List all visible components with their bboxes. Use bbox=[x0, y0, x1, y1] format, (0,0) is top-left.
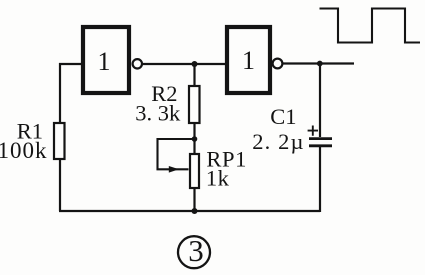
resistor R2 bbox=[189, 86, 200, 123]
node: junction dot U1 output / R2 bbox=[192, 61, 198, 67]
wire: bottom horizontal rail bbox=[59, 210, 320, 212]
svg-text:C1: C1 bbox=[270, 104, 296, 129]
svg-text:1: 1 bbox=[242, 46, 255, 75]
svg-text:3: 3 bbox=[188, 233, 204, 268]
svg-text:1k: 1k bbox=[206, 165, 230, 190]
svg-text:2. 2µ: 2. 2µ bbox=[252, 129, 304, 154]
capacitor C1 bottom plate bbox=[309, 144, 332, 147]
svg-text:3. 3k: 3. 3k bbox=[135, 101, 181, 126]
polarity plus mark of C1 bbox=[308, 126, 318, 136]
wire: output node down to C1 top plate bbox=[319, 64, 321, 138]
wire: vertical branch through R2 and RP1 bbox=[193, 63, 195, 211]
wire: left vertical branch through R1 bbox=[59, 63, 61, 211]
svg-text:100k: 100k bbox=[0, 138, 48, 163]
inverter gate U1 (function label "1") bbox=[83, 27, 129, 93]
wiper arrowhead of RP1 bbox=[169, 166, 179, 173]
inverter gate U2 (function label "1") bbox=[227, 27, 270, 93]
node: junction dot bottom rail bbox=[192, 208, 198, 214]
wire: input to gate U1 (node A horizontal) bbox=[59, 63, 83, 65]
wire: C1 bottom plate down to bottom rail bbox=[319, 146, 321, 212]
node: junction dot output / C1 bbox=[317, 61, 323, 67]
figure number: circled 3 bbox=[178, 233, 210, 268]
wire: gate U1 output to gate U2 input bbox=[141, 63, 227, 65]
wire: gate U2 output to output node bbox=[282, 62, 354, 64]
svg-text:1: 1 bbox=[98, 47, 111, 76]
capacitor C1 top plate bbox=[309, 137, 332, 140]
node: junction dot R2 / RP1 wiper bbox=[192, 136, 198, 142]
inversion bubble of U2 bbox=[273, 59, 283, 69]
wire: RP1 wiper connection bbox=[158, 139, 195, 169]
potentiometer RP1 bbox=[190, 154, 199, 188]
resistor R1 bbox=[54, 123, 65, 159]
inversion bubble of U1 bbox=[133, 59, 142, 68]
output square-wave waveform symbol bbox=[320, 9, 421, 43]
